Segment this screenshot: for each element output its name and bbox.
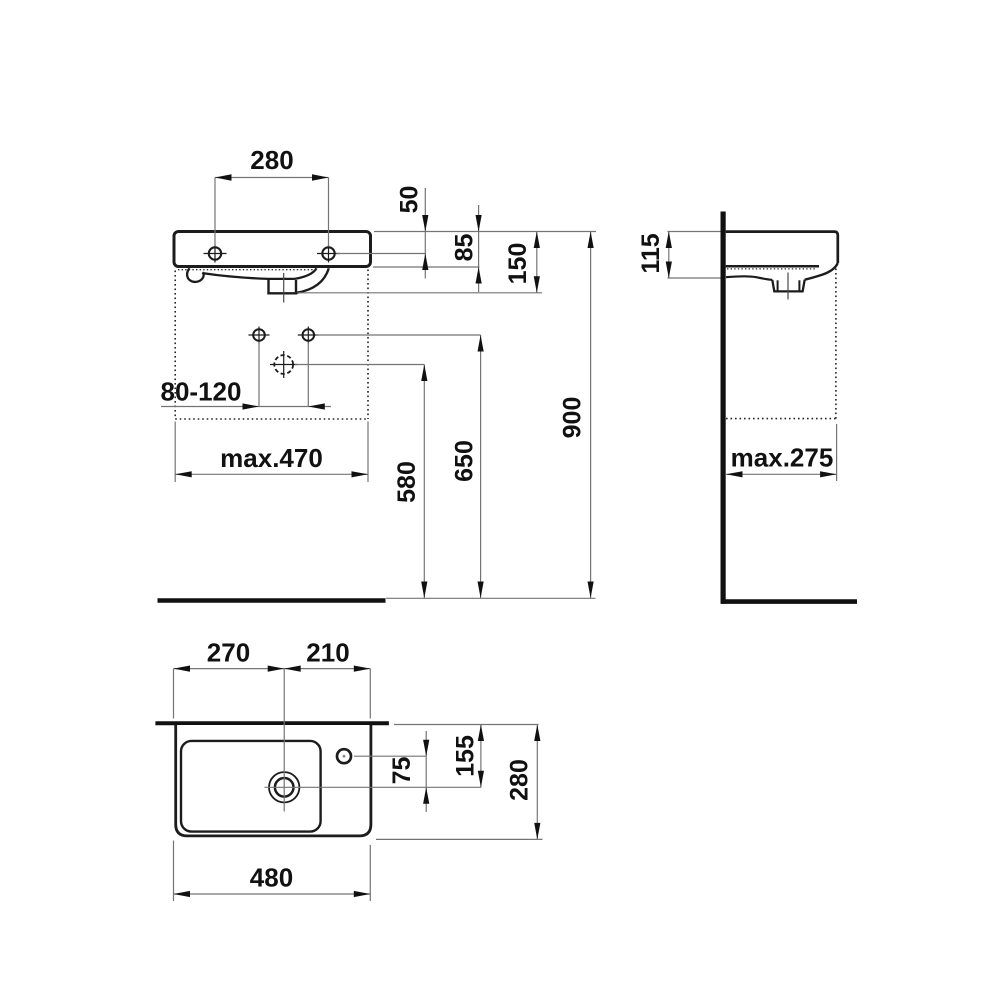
svg-text:75: 75 — [388, 757, 416, 785]
wall level reference line plan — [394, 724, 539, 726]
fixing hole reference line — [316, 334, 481, 336]
dim 270/210 extension lines — [174, 669, 371, 719]
dashed depth outline bottom — [726, 418, 836, 420]
drain box side — [772, 280, 804, 292]
dim max.275 line — [726, 473, 837, 475]
dim 280 plan arrows — [534, 725, 540, 840]
basin rim side top and right edge — [726, 232, 838, 263]
drain outer circle plan — [269, 772, 299, 802]
dim 900 line — [590, 232, 592, 599]
svg-text:max.275: max.275 — [731, 443, 834, 473]
dim 150 line — [536, 232, 538, 293]
drain inner circle plan — [275, 778, 294, 797]
dim 650 line — [480, 335, 482, 598]
dim 280 arrows — [215, 174, 329, 180]
bowl shroud outer arc — [297, 268, 329, 293]
wall line — [720, 212, 725, 604]
dim 270 arrows — [174, 666, 285, 672]
dim 75 label — [388, 757, 416, 785]
drain box front — [269, 279, 297, 293]
dim 270/210 line — [174, 668, 371, 670]
dashed install outline bottom — [175, 418, 368, 420]
dim 280 line — [215, 177, 329, 179]
svg-text:580: 580 — [393, 461, 421, 503]
bowl left hook — [187, 268, 204, 282]
svg-text:155: 155 — [452, 735, 480, 777]
dim 650 arrows — [478, 335, 484, 598]
rim bottom reference line — [373, 266, 480, 268]
dashed depth outline right — [835, 269, 837, 419]
dim 900 label — [559, 397, 587, 439]
floor reference thin line — [386, 597, 596, 599]
dim 75 line — [425, 731, 427, 812]
dim max.275 extension line — [836, 424, 838, 481]
dim 115 arrows — [666, 232, 672, 279]
left tap hole crosshair — [204, 245, 227, 263]
drain centerline vertical plan — [283, 669, 285, 812]
floor line side — [721, 599, 857, 604]
svg-text:480: 480 — [250, 863, 293, 893]
dim max.470 line — [175, 473, 368, 475]
dim max.275 arrows — [726, 471, 837, 477]
dim 480 extension lines — [174, 841, 371, 902]
drain box side inner walls — [778, 280, 800, 291]
dim 50 label — [396, 186, 424, 214]
svg-text:85: 85 — [451, 234, 479, 262]
dim 80-120 line — [161, 406, 331, 408]
dim 480 arrows — [174, 891, 371, 897]
basin bottom reference line — [298, 292, 543, 294]
drain trap hole front (dashed) — [270, 351, 297, 378]
dim 480 line — [174, 893, 371, 895]
wall line plan — [155, 721, 389, 725]
dim 115 extension lines — [668, 232, 721, 279]
bowl shroud inner arc — [295, 268, 317, 279]
top edge reference line — [374, 231, 596, 233]
dotted inner rim edge side — [727, 268, 816, 270]
dim 280 plan line — [536, 725, 538, 840]
fixing hole extension lines — [259, 342, 308, 407]
dashed install outline right — [367, 270, 369, 420]
dim 580 arrows — [421, 365, 427, 599]
dim 155 arrows — [478, 725, 484, 788]
bowl underside side — [726, 276, 772, 280]
basin rim side bottom edge — [726, 265, 819, 268]
svg-text:50: 50 — [396, 186, 424, 214]
faucet hole center dot — [343, 755, 346, 758]
svg-text:280: 280 — [250, 145, 293, 175]
faucet hole plan — [337, 749, 351, 763]
svg-text:210: 210 — [306, 638, 349, 668]
dim 85 label — [451, 234, 479, 262]
dim 115 label — [637, 233, 665, 273]
dim 155 label — [452, 735, 480, 777]
shroud curve side — [805, 263, 838, 280]
dim 580 label — [393, 461, 421, 503]
dim 580 line — [423, 365, 425, 599]
dim 150 label — [504, 243, 532, 285]
drain centerline front — [283, 273, 285, 303]
svg-text:900: 900 — [559, 397, 587, 439]
basin inner bowl plan — [181, 741, 321, 832]
svg-text:150: 150 — [504, 243, 532, 285]
svg-text:280: 280 — [506, 759, 534, 801]
dim max.470 extension lines — [175, 422, 368, 483]
svg-text:270: 270 — [207, 638, 250, 668]
svg-text:80-120: 80-120 — [161, 377, 242, 407]
dim 900 arrows — [588, 232, 594, 599]
dim 280 extension lines — [215, 178, 329, 247]
basin rim front outline — [174, 232, 371, 267]
dotted inner rim edge front — [178, 269, 315, 271]
svg-text:max.470: max.470 — [220, 443, 323, 473]
dim 115 line — [668, 232, 670, 279]
dim 50 line — [424, 188, 426, 279]
svg-text:650: 650 — [451, 440, 479, 482]
dim 80-120 arrows — [243, 403, 325, 409]
dim 50 arrows — [422, 215, 428, 270]
dim 85 line — [478, 205, 480, 292]
svg-text:115: 115 — [637, 233, 665, 273]
dim 155 line — [480, 725, 482, 788]
dim 150 arrows — [534, 232, 540, 293]
bowl underside slope — [204, 273, 295, 279]
left wall-fixing hole — [249, 327, 270, 344]
drain centerline horizontal plan — [265, 786, 482, 788]
drain centerline side — [787, 273, 789, 300]
dim 280 plan label — [506, 759, 534, 801]
basin outer outline plan — [176, 725, 371, 836]
basin bottom reference line plan — [376, 838, 543, 840]
dashed install outline left — [174, 271, 176, 420]
tap level reference line — [337, 253, 427, 255]
dim max.470 arrows — [175, 471, 368, 477]
dim 210 arrows — [284, 666, 370, 672]
right wall-fixing hole — [298, 327, 319, 344]
right tap hole crosshair — [317, 245, 340, 263]
dim 650 label — [451, 440, 479, 482]
faucet reference line plan — [354, 755, 426, 757]
floor line front — [158, 598, 386, 602]
dim 85 arrows — [476, 215, 482, 284]
drain hole reference line — [295, 364, 424, 366]
dim 75 arrows — [423, 740, 429, 804]
